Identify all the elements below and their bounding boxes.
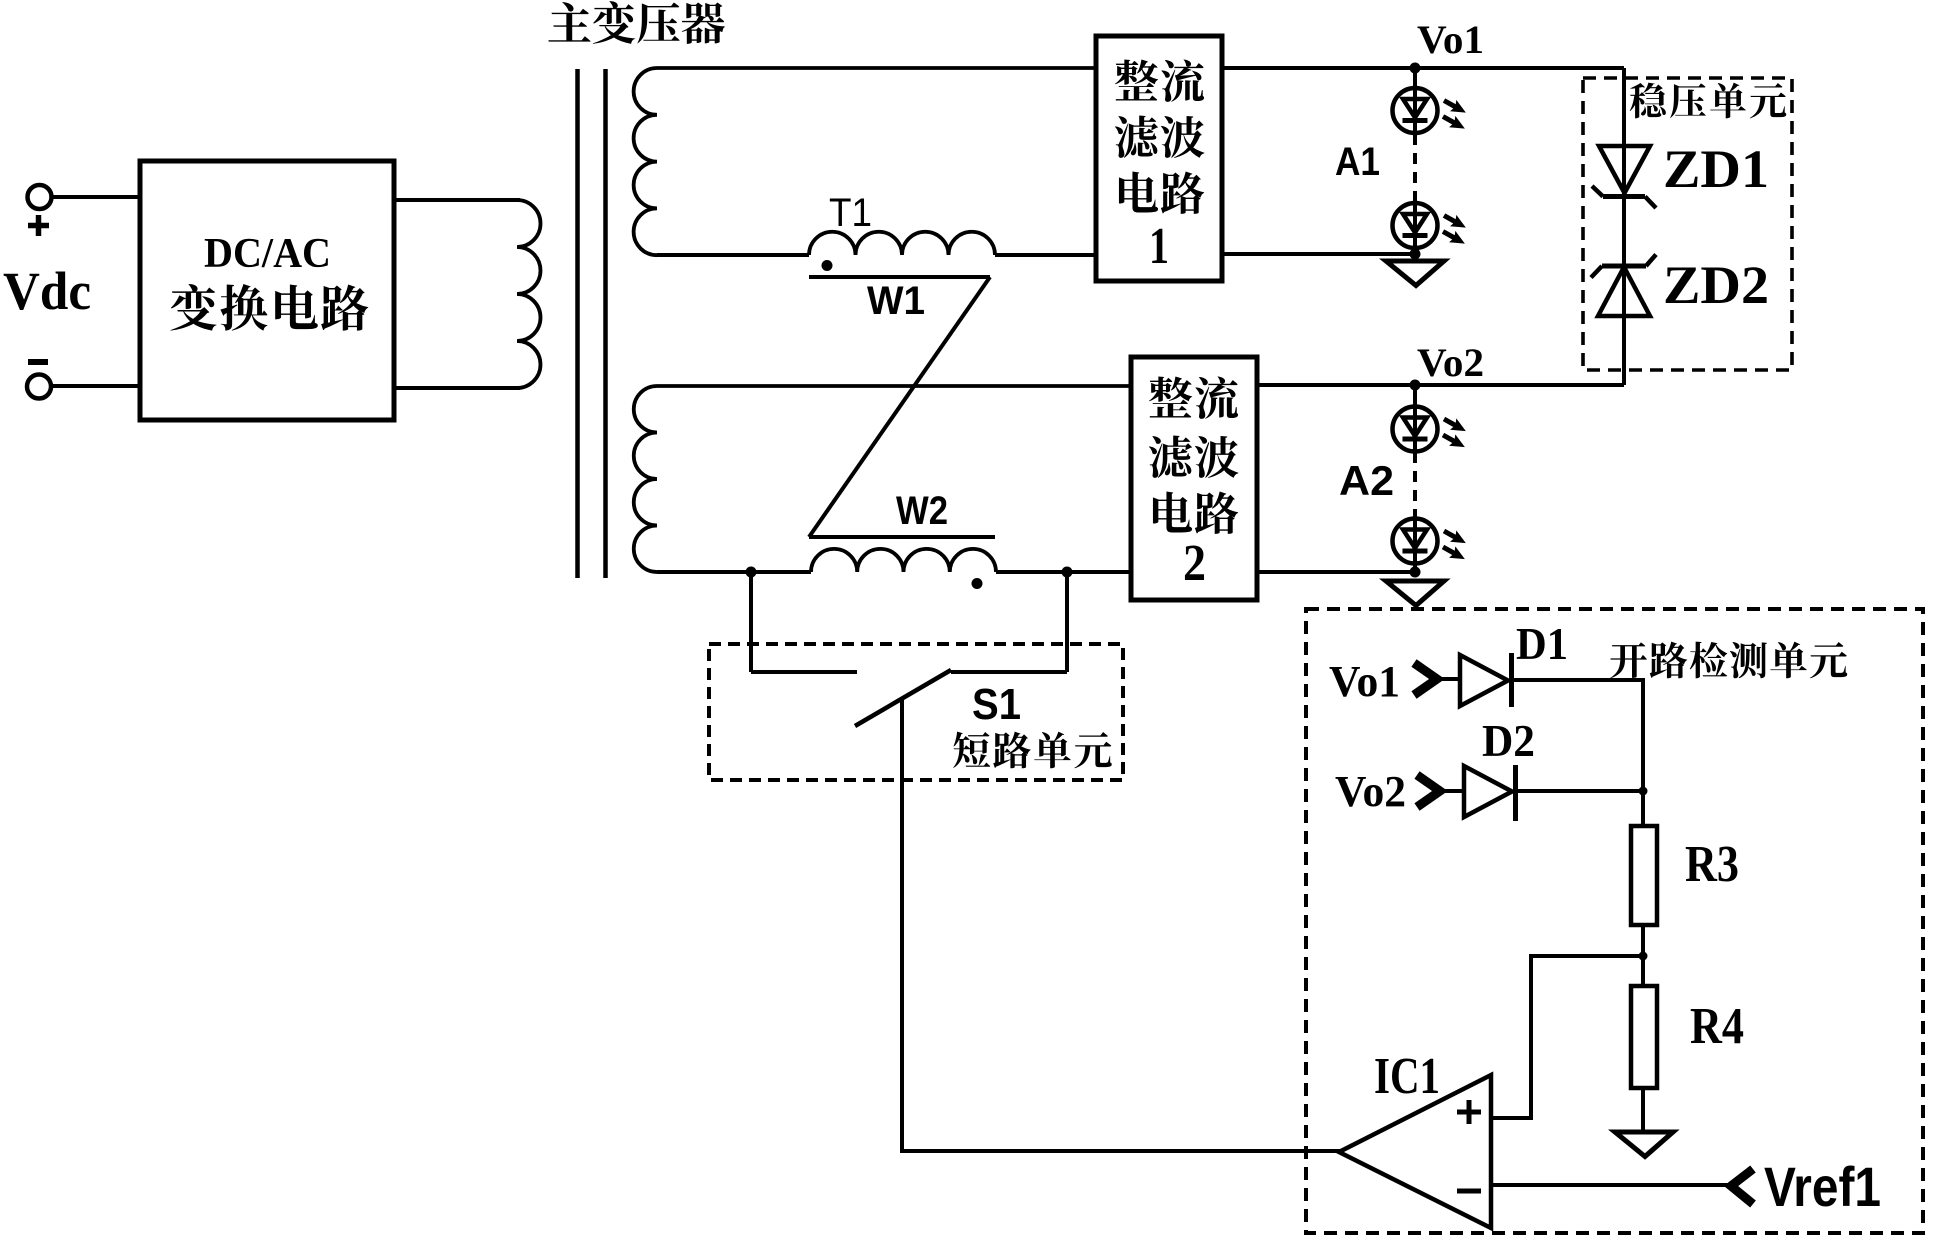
wire box to primary bottom — [394, 386, 520, 390]
dashed box open-circuit detection unit — [1306, 609, 1923, 1233]
winding T1-W1 — [809, 232, 995, 255]
op-amp + pin — [1457, 1100, 1481, 1124]
transformer core — [578, 69, 606, 578]
diode D2 — [1464, 765, 1516, 821]
wire A1 bottom lead — [1413, 248, 1417, 258]
dashed box short-circuit unit — [709, 644, 1123, 780]
wire W2 rail left — [657, 570, 811, 574]
label 滤波 1 — [1115, 116, 1205, 158]
wire divider to +input — [1493, 956, 1643, 1118]
node A2 return — [1410, 567, 1421, 578]
node A1 return — [1410, 249, 1421, 260]
label 电路 2 — [1153, 492, 1238, 534]
wire A2 return rail — [1257, 570, 1415, 574]
switch S1 blade — [855, 670, 951, 726]
terminal - (negative input) — [27, 362, 51, 399]
wire W1 rail right — [995, 253, 1096, 257]
svg-text:D1: D1 — [1516, 618, 1568, 669]
LED A1a — [1393, 88, 1470, 134]
svg-text:Vo1: Vo1 — [1329, 657, 1400, 706]
wire R3 to R4 — [1641, 925, 1645, 986]
zener ZD2 — [1591, 255, 1656, 317]
dot W2 polarity — [972, 578, 983, 589]
node S1 right — [1062, 567, 1073, 578]
svg-text:R4: R4 — [1690, 998, 1744, 1055]
svg-text:Vo1: Vo1 — [1417, 17, 1484, 62]
svg-text:Vdc: Vdc — [3, 261, 91, 321]
op-amp IC1 — [1339, 1075, 1491, 1228]
svg-text:Vo2: Vo2 — [1335, 767, 1406, 816]
label 滤波 2 — [1149, 436, 1239, 478]
svg-text:1: 1 — [1149, 218, 1169, 275]
dashed LED string A2 — [1413, 452, 1417, 518]
diode D1 — [1460, 653, 1512, 707]
wire zener branch — [1622, 68, 1626, 385]
dashed box voltage-regulation unit — [1583, 78, 1792, 370]
wire A2 bottom lead — [1413, 563, 1417, 576]
label 稳压单元 — [1630, 83, 1786, 119]
wire W1 rail left — [657, 253, 809, 257]
svg-text:A2: A2 — [1339, 457, 1394, 504]
dot W1 polarity — [822, 260, 833, 271]
wire W2 rail right — [996, 570, 1131, 574]
op-amp - pin — [1457, 1189, 1481, 1194]
wire A1 top lead — [1413, 68, 1417, 89]
winding W2 — [811, 549, 996, 572]
resistor R3 — [1631, 826, 1657, 925]
wire S1 right vertical — [1065, 572, 1069, 672]
wire box to primary top — [394, 198, 520, 202]
wire Vo1 rail — [1222, 66, 1624, 70]
coupling bar W1 — [809, 275, 990, 279]
label 主变压器 — [548, 1, 724, 44]
terminal + (positive input) — [28, 185, 52, 236]
svg-text:ZD2: ZD2 — [1663, 255, 1769, 315]
wire S1 control — [902, 700, 1341, 1151]
LED A1b — [1393, 203, 1470, 249]
wire input top — [51, 195, 140, 199]
LED A2b — [1393, 519, 1470, 565]
wire A2 top lead — [1413, 385, 1417, 407]
svg-text:Vo2: Vo2 — [1417, 340, 1484, 385]
svg-text:S1: S1 — [972, 680, 1021, 729]
svg-text:2: 2 — [1183, 535, 1206, 592]
zener ZD1 — [1592, 146, 1656, 208]
node Vo2 — [1410, 380, 1421, 391]
coupling slash — [809, 277, 990, 537]
wire S1 left horizontal — [751, 670, 857, 674]
node D1-D2 — [1639, 787, 1648, 796]
transformer secondary winding 2 — [634, 386, 1131, 572]
block rectifier-filter 2 — [1131, 357, 1257, 600]
wire D2 to node — [1514, 789, 1643, 793]
coupling bar W2 — [809, 535, 995, 539]
wire S1 left vertical — [749, 572, 753, 672]
wire A1 return rail — [1222, 252, 1415, 256]
svg-text:T1: T1 — [829, 191, 872, 235]
ground A2 — [1386, 581, 1444, 606]
label 整流 1 — [1115, 60, 1204, 102]
arrow Vo2 input — [1417, 775, 1440, 807]
wire Vo2 rail — [1257, 383, 1624, 387]
svg-text:Vref1: Vref1 — [1764, 1155, 1881, 1218]
ground A1 — [1386, 261, 1444, 286]
svg-text:R3: R3 — [1685, 836, 1739, 893]
svg-text:W2: W2 — [896, 489, 948, 533]
svg-text:IC1: IC1 — [1374, 1048, 1440, 1105]
label 变换电路 — [170, 284, 368, 331]
svg-text:ZD1: ZD1 — [1663, 139, 1769, 199]
wire Vo1 to D1 — [1436, 677, 1460, 681]
node S1 left — [746, 567, 757, 578]
block rectifier-filter 1 — [1096, 36, 1222, 281]
wire Vo2 to D2 — [1439, 789, 1464, 793]
wire S1 right horizontal — [951, 670, 1067, 674]
svg-text:D2: D2 — [1482, 715, 1535, 766]
transformer secondary winding 1 — [634, 68, 1096, 255]
wire input bottom — [50, 384, 140, 388]
wire D1 to R3 — [1510, 680, 1643, 826]
svg-text:W1: W1 — [867, 279, 925, 323]
svg-text:DC/AC: DC/AC — [204, 231, 331, 277]
ground R4 — [1615, 1132, 1673, 1157]
wire -input to Vref1 — [1491, 1183, 1733, 1187]
transformer primary winding — [517, 200, 541, 388]
node Vo1 — [1410, 63, 1421, 74]
svg-text:A1: A1 — [1335, 140, 1380, 184]
dashed LED string A1 — [1413, 134, 1417, 202]
label 电路 1 — [1119, 172, 1204, 214]
arrow Vo1 input — [1414, 663, 1437, 695]
arrow Vref1 — [1731, 1169, 1753, 1204]
label 开路检测单元 — [1610, 642, 1847, 679]
resistor R4 — [1631, 986, 1657, 1088]
label 短路单元 — [953, 732, 1112, 769]
wire R4 to ground — [1641, 1088, 1645, 1132]
block DC/AC converter — [140, 161, 394, 420]
label 整流 2 — [1149, 377, 1238, 419]
node divider — [1639, 952, 1648, 961]
LED A2a — [1393, 407, 1470, 453]
